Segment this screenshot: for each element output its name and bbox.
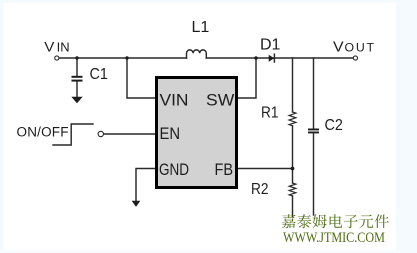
resistor R2 zigzag: [289, 183, 296, 196]
switch contact circle: [98, 131, 103, 136]
ground arrow below C1: [71, 97, 82, 103]
junction node at FB divider: [291, 167, 295, 171]
terminal VOUT circle: [353, 56, 357, 60]
svg-text:WWW.JTMIC.COM: WWW.JTMIC.COM: [283, 229, 385, 245]
capacitor C2 plates: [308, 129, 319, 131]
capacitor C1 bottom lead: [76, 82, 78, 97]
svg-text:R1: R1: [261, 105, 278, 122]
resistor R1 top lead: [292, 58, 294, 112]
svg-text:C1: C1: [90, 65, 108, 83]
svg-text:R2: R2: [251, 181, 268, 198]
svg-text:ON/OFF: ON/OFF: [17, 125, 69, 140]
svg-text:EN: EN: [160, 125, 181, 143]
junction node at C1 tap: [75, 56, 78, 59]
ON/OFF step waveform symbol: [53, 124, 93, 145]
resistor R2 bottom lead: [292, 196, 294, 217]
diode D1 triangle: [269, 55, 275, 62]
svg-text:D1: D1: [260, 36, 281, 53]
wire GND pin to ground: [136, 169, 155, 201]
ground arrow below GND pin: [132, 201, 141, 207]
svg-text:VIN: VIN: [160, 91, 189, 109]
resistor R1 zigzag: [289, 112, 296, 126]
wire top rail right (L1 to VOUT terminal): [206, 57, 353, 59]
svg-text:V: V: [44, 40, 55, 55]
capacitor C1 top lead: [76, 58, 78, 76]
junction node at SW riser: [254, 56, 257, 59]
capacitor C1 plates: [72, 76, 83, 78]
svg-text:C2: C2: [325, 116, 343, 134]
wire VIN riser to pin: [127, 58, 155, 98]
svg-text:L1: L1: [192, 19, 210, 36]
watermark line 1 (CJK): [282, 214, 389, 228]
op-amp U1 regulator IC body: [157, 78, 237, 188]
capacitor C2 bottom lead: [313, 134, 315, 215]
svg-text:IN: IN: [57, 40, 70, 55]
diode D1 cathode bar: [273, 54, 275, 62]
wire EN input to pin: [104, 133, 155, 135]
svg-text:SW: SW: [206, 91, 235, 109]
wire top rail left (VIN terminal to L1): [60, 57, 187, 59]
terminal VIN circle: [55, 56, 59, 60]
resistor R2 top lead: [292, 169, 294, 184]
wire SW pin to rail riser: [238, 58, 256, 98]
wire FB pin to divider: [238, 168, 293, 170]
svg-text:GND: GND: [159, 161, 189, 180]
inductor L1 coil: [187, 50, 207, 58]
svg-text:V: V: [333, 39, 344, 56]
junction node at VIN riser: [125, 56, 128, 59]
capacitor C2 top lead: [313, 58, 315, 128]
svg-text:OUT: OUT: [345, 41, 376, 55]
svg-text:FB: FB: [215, 161, 234, 179]
resistor R1 bottom lead: [292, 126, 294, 169]
